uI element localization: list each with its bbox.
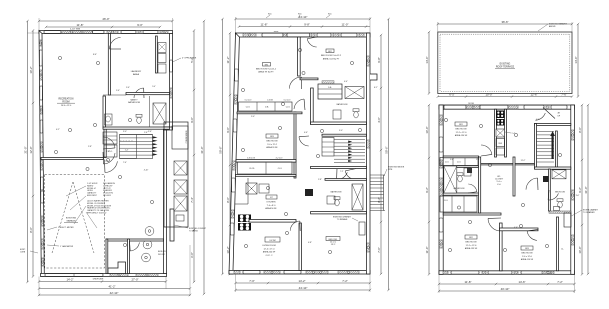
svg-text:5'-6": 5'-6" [126,87,130,89]
svg-text:TO REMAIN: TO REMAIN [337,218,348,221]
svg-text:3'-0": 3'-0" [576,195,580,197]
svg-text:7'-4": 7'-4" [190,197,194,203]
svg-text:8'-6": 8'-6" [29,227,33,233]
svg-text:6'-1": 6'-1" [374,87,378,89]
svg-text:1'-4": 1'-4" [125,150,129,152]
svg-text:9'-0": 9'-0" [137,23,143,27]
svg-text:11'-2": 11'-2" [521,160,526,162]
svg-text:AREA 114 SF: AREA 114 SF [521,258,534,261]
svg-text:ROOF TERRACE: ROOF TERRACE [496,66,515,69]
svg-text:11'-8": 11'-8" [77,23,84,27]
svg-text:1' GAS METER: 1' GAS METER [60,245,74,248]
svg-text:40'-10": 40'-10" [501,287,510,291]
svg-text:4" OFFICE SIDE: 4" OFFICE SIDE [182,58,197,60]
svg-text:7'-2": 7'-2" [342,279,348,283]
svg-text:7'-4": 7'-4" [123,162,127,164]
svg-text:AREA: 99 SQ FT: AREA: 99 SQ FT [258,71,274,74]
svg-text:5'-8 CLOS: 5'-8 CLOS [247,158,256,160]
svg-text:31'-0": 31'-0" [584,186,588,193]
svg-text:4'-2": 4'-2" [56,129,60,131]
svg-text:BED ROOM: BED ROOM [267,141,278,143]
svg-text:W.D.: W.D. [298,14,302,16]
svg-text:CLO.: CLO. [286,107,291,109]
svg-text:BED ROOM 9'-0x11'-2: BED ROOM 9'-0x11'-2 [256,68,277,70]
svg-text:11'-8": 11'-8" [465,280,472,284]
svg-text:9'-2": 9'-2" [578,187,582,193]
svg-text:8'-0": 8'-0" [578,127,582,133]
svg-text:W.D.: W.D. [328,14,332,16]
svg-text:44'-10": 44'-10" [299,15,308,19]
svg-text:EFFICIENT: EFFICIENT [87,195,98,197]
svg-text:9'-8": 9'-8" [377,57,381,63]
svg-text:BATHROOM: BATHROOM [454,187,465,190]
svg-text:CLO.: CLO. [444,200,449,202]
svg-text:LIV RM: LIV RM [270,240,276,242]
svg-text:BR1: BR1 [265,64,269,66]
svg-text:7'-2": 7'-2" [557,280,563,284]
svg-text:4'-6": 4'-6" [304,132,308,134]
svg-text:BR3: BR3 [270,136,274,138]
svg-text:11'-0": 11'-0" [342,23,349,27]
svg-text:EXISTING: EXISTING [500,64,511,66]
svg-text:11'-2": 11'-2" [226,57,230,64]
svg-text:26'-0 x 12'-0: 26'-0 x 12'-0 [61,105,71,107]
svg-text:D.B.: D.B. [265,107,269,109]
svg-text:AREA 134 SF: AREA 134 SF [455,134,468,137]
svg-text:EXTRA CABINET: EXTRA CABINET [583,209,599,212]
svg-text:AREA 56 SF: AREA 56 SF [265,207,277,210]
svg-text:EXISTING: EXISTING [66,218,77,220]
svg-text:14'-6": 14'-6" [425,56,429,63]
svg-text:4'-2 CLO: 4'-2 CLO [276,158,283,160]
svg-text:KITCHEN: KITCHEN [267,202,276,204]
svg-text:8'-6": 8'-6" [226,197,230,203]
svg-text:AREA: 104 SQ FT: AREA: 104 SQ FT [323,57,340,60]
svg-text:BED ROOM: BED ROOM [522,253,533,255]
svg-text:ABOVE: ABOVE [549,25,556,28]
svg-text:2'-8": 2'-8" [88,146,92,148]
svg-text:BR2: BR2 [328,51,332,53]
svg-text:26'-0": 26'-0" [102,17,109,21]
svg-text:TO DRAWER: TO DRAWER [583,211,595,214]
svg-text:4'-4": 4'-4" [536,119,540,121]
svg-text:44'-10": 44'-10" [299,286,308,290]
svg-text:BEDROOM: BEDROOM [555,192,565,194]
svg-text:CLO.: CLO. [278,168,283,170]
svg-text:CONDENSER: CONDENSER [186,130,188,143]
svg-text:BR1: BR1 [459,124,463,126]
svg-text:42'-10": 42'-10" [110,291,119,295]
svg-text:14'-6": 14'-6" [518,280,525,284]
svg-text:10'-2": 10'-2" [29,66,33,73]
svg-text:3'-6": 3'-6" [450,159,454,161]
svg-text:11'-0": 11'-0" [425,247,429,254]
svg-text:9'-8": 9'-8" [304,23,310,27]
svg-text:7'-2": 7'-2" [340,171,344,173]
svg-text:4-1/2" SPA: 4-1/2" SPA [70,28,80,31]
svg-text:3'-6": 3'-6" [148,131,152,133]
svg-text:CLO.: CLO. [246,107,251,109]
svg-text:BATHROOM: BATHROOM [331,191,342,194]
svg-text:BOILER: BOILER [158,251,166,253]
svg-text:9'-0 x 11'-2: 9'-0 x 11'-2 [267,144,278,146]
svg-text:10'-0": 10'-0" [425,126,429,133]
svg-text:EXISTING PARAPET: EXISTING PARAPET [549,23,568,26]
svg-text:2'-6 DB: 2'-6 DB [267,100,273,102]
svg-text:AREA 204 SF: AREA 204 SF [263,251,276,254]
svg-text:4'-6": 4'-6" [514,227,518,229]
svg-text:REF: REF [499,143,502,145]
svg-text:95% EFF: 95% EFF [103,195,112,197]
svg-text:59'-6": 59'-6" [219,146,223,153]
svg-text:CL.: CL. [561,249,564,251]
svg-text:RECREATION: RECREATION [59,98,74,101]
svg-text:11'-2 x 12'-0: 11'-2 x 12'-0 [456,132,468,134]
svg-text:BR2: BR2 [469,237,473,239]
svg-text:5'-6": 5'-6" [116,90,120,92]
svg-text:W.D.: W.D. [268,14,272,16]
svg-text:GARAGE: GARAGE [66,219,76,222]
svg-text:2'-8": 2'-8" [106,151,110,153]
svg-text:12'-0 x 17'-0: 12'-0 x 17'-0 [264,248,276,250]
svg-text:31'-0": 31'-0" [200,146,204,153]
svg-text:BED ROOM: BED ROOM [456,129,467,131]
svg-text:BATHROOM: BATHROOM [128,101,140,104]
svg-text:59'-6": 59'-6" [385,146,389,153]
svg-text:6'-0": 6'-0" [190,252,194,258]
svg-text:CLOS.: CLOS. [249,168,255,170]
svg-text:36'-6": 36'-6" [501,20,508,24]
svg-text:OCC. 2: OCC. 2 [266,255,274,257]
svg-text:D.B.: D.B. [328,87,332,89]
svg-text:11'-8": 11'-8" [261,23,268,27]
svg-text:11'-2 x 12'-6: 11'-2 x 12'-6 [466,245,478,247]
svg-text:4'-4": 4'-4" [344,81,348,83]
svg-text:LIVING ROOM: LIVING ROOM [262,245,276,247]
svg-text:xxxxx: xxxxx [274,31,279,33]
svg-text:9'-2": 9'-2" [425,187,429,193]
svg-text:EFFICIENCY 150 BTU: EFFICIENCY 150 BTU [87,213,107,215]
svg-text:10'-0": 10'-0" [578,246,582,253]
svg-text:1' ELECT. METER: 1' ELECT. METER [58,227,74,229]
svg-text:CURB: CURB [20,252,26,254]
svg-text:2'-8": 2'-8" [318,179,322,181]
svg-text:CLO.: CLO. [445,162,450,164]
svg-text:9'-0": 9'-0" [190,117,194,123]
svg-text:8'-6": 8'-6" [93,54,97,56]
svg-text:5'-0 CLO: 5'-0 CLO [284,100,291,102]
svg-text:14'-6": 14'-6" [574,56,578,63]
svg-text:4'-10": 4'-10" [144,170,149,172]
svg-text:5'-0": 5'-0" [251,116,255,118]
svg-text:14'-2": 14'-2" [298,279,305,283]
svg-text:7'-0": 7'-0" [377,247,381,253]
svg-text:3'-0": 3'-0" [123,131,127,133]
svg-text:9'-6 x 12'-0: 9'-6 x 12'-0 [522,256,533,258]
svg-text:5'-0 CLO: 5'-0 CLO [245,100,252,102]
svg-text:BR3: BR3 [525,248,529,250]
svg-text:LAUNDRY: LAUNDRY [131,70,142,73]
svg-text:BATHROOM: BATHROOM [337,103,348,106]
svg-text:DRIVELINE: DRIVELINE [93,279,104,281]
svg-text:5'-4": 5'-4" [152,86,156,88]
svg-text:TO MAINS: TO MAINS [189,230,198,233]
svg-text:5'-0": 5'-0" [476,159,480,161]
svg-text:CLO.: CLO. [457,162,462,164]
svg-text:BED ROOM 9'-0x12'-2: BED ROOM 9'-0x12'-2 [321,55,342,57]
svg-text:PIPE: PIPE [388,169,393,171]
svg-text:7'-0 x 8'-0: 7'-0 x 8'-0 [267,205,277,207]
svg-text:41'-2": 41'-2" [108,285,115,289]
svg-text:AREA 139 SF: AREA 139 SF [465,247,478,250]
svg-text:7'-0": 7'-0" [249,279,255,283]
svg-text:14'-2": 14'-2" [66,278,73,282]
svg-text:BED ROOM: BED ROOM [466,242,477,244]
svg-text:3'-0": 3'-0" [339,130,343,132]
svg-text:AREA 99 SF: AREA 99 SF [266,146,278,149]
svg-text:9'-0": 9'-0" [226,127,230,133]
svg-text:12'-0": 12'-0" [29,146,33,153]
svg-text:AREA: AREA [133,73,139,76]
svg-text:31'-0": 31'-0" [24,146,28,153]
svg-text:27'-0": 27'-0" [131,278,138,282]
svg-text:4'-8": 4'-8" [308,242,312,244]
svg-text:4'-0": 4'-0" [377,117,381,123]
svg-text:ROOM: ROOM [158,254,165,256]
svg-text:ROOM: ROOM [468,103,474,105]
